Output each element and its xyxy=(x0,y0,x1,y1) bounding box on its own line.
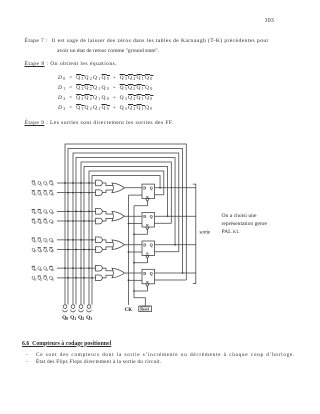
equations xyxy=(58,75,153,81)
node junction row 6 bus 3 xyxy=(75,249,77,251)
node junction FF3 Q feedback tap xyxy=(174,244,176,246)
terminal circle Q2 input xyxy=(79,305,83,309)
wire product term row 5 xyxy=(57,239,96,241)
Etape 8 line xyxy=(25,61,118,68)
svg-text:3: 3 xyxy=(35,211,37,215)
svg-text:1: 1 xyxy=(47,249,49,253)
node junction CK rail FF4 xyxy=(128,279,130,281)
node junction reset rail FF3 xyxy=(133,262,135,264)
pin FF3 clock wedge xyxy=(146,256,150,259)
node junction row 4 bus 6 xyxy=(88,220,90,222)
node junction row 4 bus 1 xyxy=(67,220,69,222)
wire and-gate G5 output xyxy=(102,240,113,243)
reset source box xyxy=(139,306,152,312)
node junction CK rail FF2 xyxy=(128,223,130,225)
node junction row 8 bus 3 xyxy=(75,277,77,279)
wire product term row 4 xyxy=(57,220,96,222)
node junction row 2 bus 1 xyxy=(67,192,69,194)
wire FF1 Q-bar output xyxy=(155,194,164,196)
terminal cup Q2 xyxy=(79,310,84,312)
wire FF3 Q output to sortie xyxy=(155,244,196,246)
node junction row 3 bus 3 xyxy=(75,210,77,212)
and-gate G3 (product term 3) xyxy=(96,209,103,215)
node junction row 6 bus 1 xyxy=(67,249,69,251)
svg-text:3: 3 xyxy=(35,221,37,225)
wire FF3 clock stub to CK rail xyxy=(129,251,143,253)
wire FF1 Q output to sortie xyxy=(155,187,196,189)
wire or-gate O1 output to FF1 D xyxy=(125,187,143,189)
sortie output bracket xyxy=(193,184,196,283)
svg-text:D: D xyxy=(143,186,146,191)
flip-flop FF1 (D-type) xyxy=(142,184,155,199)
terminal circle Q1 input xyxy=(71,305,75,309)
svg-text:0: 0 xyxy=(52,277,54,281)
node junction row 3 bus 6 xyxy=(88,210,90,212)
svg-text:0: 0 xyxy=(52,211,54,215)
wire FF3 reset pin to reset rail xyxy=(134,259,147,263)
pin FF2 clock wedge xyxy=(146,227,150,230)
svg-text:1: 1 xyxy=(47,221,49,225)
label product term 4 literals xyxy=(32,220,55,225)
label product term 5 literals xyxy=(32,239,55,244)
terminal cup Q1 xyxy=(71,310,76,312)
wire feedback net FF4 Q to bus column 1 xyxy=(68,149,183,305)
svg-text:2: 2 xyxy=(41,239,43,243)
node junction row 5 bus 1 xyxy=(67,239,69,241)
node junction row 1 bus 4 xyxy=(80,182,82,184)
node junction row 1 bus 6 xyxy=(88,182,90,184)
node junction row 7 bus 0 xyxy=(64,267,66,269)
wire FF4 reset pin to reset rail xyxy=(134,287,147,291)
node junction row 7 bus 2 xyxy=(72,267,74,269)
and-gate G8 (product term 8) xyxy=(96,275,103,281)
svg-text:1: 1 xyxy=(47,268,49,272)
wire and-gate G2 output xyxy=(102,190,113,193)
svg-text:2: 2 xyxy=(41,221,43,225)
svg-text:3: 3 xyxy=(35,277,37,281)
svg-text:3: 3 xyxy=(35,239,37,243)
wire product term row 1 xyxy=(57,182,96,184)
wire and-gate G4 output xyxy=(102,218,113,221)
svg-text:3: 3 xyxy=(35,249,37,253)
svg-text:Q3: Q3 xyxy=(86,315,92,321)
node junction row 5 bus 4 xyxy=(80,239,82,241)
node junction FF1 Q feedback tap xyxy=(159,187,161,189)
svg-text:2: 2 xyxy=(41,192,43,196)
node junction row 2 bus 4 xyxy=(80,192,82,194)
wire feedback net FF2 Q to bus column 5 xyxy=(84,167,168,305)
terminal circle Q3 input xyxy=(87,305,91,309)
svg-text:Q1: Q1 xyxy=(70,315,76,321)
svg-text:Q: Q xyxy=(150,186,153,191)
svg-text:1: 1 xyxy=(47,277,49,281)
wire or-gate O2 output to FF2 D xyxy=(125,215,143,217)
node junction reset rail FF4 xyxy=(133,290,135,292)
svg-text:3: 3 xyxy=(35,192,37,196)
node junction row 6 bus 6 xyxy=(88,249,90,251)
and-gate G5 (product term 5) xyxy=(96,237,103,243)
node junction CK rail FF3 xyxy=(128,251,130,253)
wire feedback net FF3 Q to bus column 3 xyxy=(76,158,175,305)
node junction row 3 bus 4 xyxy=(80,210,82,212)
label product term 8 literals xyxy=(32,277,55,282)
flip-flop FF4 (D-type) xyxy=(142,269,155,284)
section 6.6 heading xyxy=(22,341,111,348)
terminal cup Q0 xyxy=(63,310,68,312)
and-gate G2 (product term 2) xyxy=(96,190,103,196)
svg-text:Q0: Q0 xyxy=(62,315,68,321)
label product term 2 literals xyxy=(32,191,55,196)
wire or-gate O4 output to FF4 D xyxy=(125,272,143,274)
wire and-gate G6 output xyxy=(102,247,113,250)
svg-text:0: 0 xyxy=(52,268,54,272)
node junction reset rail FF2 xyxy=(133,233,135,235)
wire FF1 clock stub to CK rail xyxy=(129,194,143,196)
node junction row 4 bus 5 xyxy=(83,220,85,222)
node junction row 1 bus 0 xyxy=(64,182,66,184)
wire FF4 Q output to sortie xyxy=(155,272,196,274)
wire FF4 clock stub to CK rail xyxy=(129,279,143,281)
svg-text:Q: Q xyxy=(150,271,153,276)
terminal circle Q0 input xyxy=(63,305,67,309)
flip-flop FF2 (D-type) xyxy=(142,213,155,228)
svg-text:CK: CK xyxy=(125,308,133,313)
wire product term row 6 xyxy=(57,249,96,251)
pin FF1 clock wedge xyxy=(146,199,150,202)
node junction row 3 bus 1 xyxy=(67,210,69,212)
wire FF1 reset pin to reset rail xyxy=(134,202,147,206)
and-gate G7 (product term 7) xyxy=(96,265,103,271)
svg-text:1: 1 xyxy=(47,211,49,215)
svg-text:0: 0 xyxy=(52,249,54,253)
svg-text:3: 3 xyxy=(35,183,37,187)
svg-text:Q: Q xyxy=(150,243,153,248)
label product term 7 literals xyxy=(32,267,55,272)
svg-text:1: 1 xyxy=(47,239,49,243)
wire and-gate G3 output xyxy=(102,211,113,214)
svg-text:0: 0 xyxy=(52,221,54,225)
label product term 6 literals xyxy=(32,248,55,253)
label product term 1 literals xyxy=(32,182,55,187)
svg-text:sortie: sortie xyxy=(200,231,211,236)
wire feedback net FF1 Qbar to bus column 6 xyxy=(89,171,164,304)
svg-text:1: 1 xyxy=(47,192,49,196)
wire feedback net FF1 Q to bus column 7 xyxy=(92,176,160,305)
wire and-gate G1 output xyxy=(102,183,113,186)
node junction row 7 bus 6 xyxy=(88,267,90,269)
svg-text:3: 3 xyxy=(35,268,37,272)
wire feedback net FF2 Qbar to bus column 4 xyxy=(81,162,171,304)
or-gate O2 xyxy=(112,211,125,221)
wire FF2 reset pin to reset rail xyxy=(134,230,147,234)
or-gate O3 xyxy=(112,240,125,250)
bullet 1 xyxy=(26,352,28,358)
node junction row 4 bus 2 xyxy=(72,220,74,222)
node junction row 1 bus 2 xyxy=(72,182,74,184)
Etape 9 line xyxy=(25,120,174,127)
svg-text:D: D xyxy=(143,214,146,219)
page number 103 xyxy=(265,17,274,24)
node junction row 6 bus 5 xyxy=(83,249,85,251)
wire FF2 Q output to sortie xyxy=(155,215,196,217)
node junction FF2 Q feedback tap xyxy=(167,215,169,217)
svg-text:0: 0 xyxy=(52,192,54,196)
svg-text:1: 1 xyxy=(47,183,49,187)
svg-text:Reset: Reset xyxy=(140,308,150,312)
wire product term row 2 xyxy=(57,192,96,194)
svg-text:Q2: Q2 xyxy=(78,315,84,321)
label product term 3 literals xyxy=(32,210,55,215)
node junction row 2 bus 2 xyxy=(72,192,74,194)
node junction row 8 bus 7 xyxy=(91,277,93,279)
wire CK clock rail xyxy=(128,195,130,305)
wire FF2 clock stub to CK rail xyxy=(129,223,143,225)
note about PAL representation xyxy=(222,212,268,237)
Etape 7 paragraph xyxy=(25,38,269,45)
wire FF4 Q-bar output xyxy=(155,279,187,281)
node junction row 5 bus 7 xyxy=(91,239,93,241)
node junction row 8 bus 1 xyxy=(67,277,69,279)
wire feedback net FF4 Qbar to bus column 0 xyxy=(65,144,186,304)
wire product term row 7 xyxy=(57,267,96,269)
bullet 2 xyxy=(26,359,28,365)
svg-text:2: 2 xyxy=(41,268,43,272)
or-gate O4 xyxy=(112,268,125,278)
svg-text:2: 2 xyxy=(41,277,43,281)
svg-text:D: D xyxy=(143,271,146,276)
terminal cup Q3 xyxy=(87,310,92,312)
svg-text:0: 0 xyxy=(52,239,54,243)
svg-text:2: 2 xyxy=(41,249,43,253)
wire and-gate G7 output xyxy=(102,268,113,271)
wire reset rail xyxy=(134,206,145,306)
svg-text:2: 2 xyxy=(41,211,43,215)
node junction row 2 bus 6 xyxy=(88,192,90,194)
or-gate O1 xyxy=(112,183,125,193)
wire or-gate O3 output to FF3 D xyxy=(125,244,143,246)
and-gate G4 (product term 4) xyxy=(96,218,103,224)
svg-text:D: D xyxy=(143,243,146,248)
svg-text:0: 0 xyxy=(52,183,54,187)
and-gate G6 (product term 6) xyxy=(96,247,103,253)
node junction FF4 Q feedback tap xyxy=(182,272,184,274)
node junction row 8 bus 5 xyxy=(83,277,85,279)
node junction row 7 bus 4 xyxy=(80,267,82,269)
node junction row 5 bus 2 xyxy=(72,239,74,241)
wire product term row 8 xyxy=(57,277,96,279)
wire FF2 Q-bar output xyxy=(155,222,172,224)
pin FF4 clock wedge xyxy=(146,284,150,287)
wire feedback net FF3 Qbar to bus column 2 xyxy=(73,153,179,304)
svg-text:Q: Q xyxy=(150,214,153,219)
svg-text:2: 2 xyxy=(41,183,43,187)
and-gate G1 (product term 1) xyxy=(96,180,103,186)
wire FF3 Q-bar output xyxy=(155,251,179,253)
wire product term row 3 xyxy=(57,210,96,212)
flip-flop FF3 (D-type) xyxy=(142,241,155,256)
wire and-gate G8 output xyxy=(102,275,113,278)
